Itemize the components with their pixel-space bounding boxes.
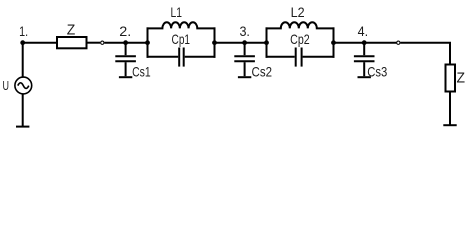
svg-text:U: U xyxy=(3,79,10,93)
voltage source U xyxy=(3,77,32,94)
tank 1 left junction xyxy=(145,40,150,45)
ground bar of Cs1 xyxy=(119,76,132,78)
svg-text:3.: 3. xyxy=(239,23,250,39)
svg-text:Z: Z xyxy=(456,71,465,87)
wire resistor to terminal xyxy=(87,42,101,44)
capacitor Cs3 xyxy=(354,43,388,80)
capacitor Cs2 xyxy=(234,43,272,80)
svg-text:1.: 1. xyxy=(19,23,28,39)
node 4 xyxy=(358,23,369,45)
tank 2 left vertical wire xyxy=(266,27,268,57)
svg-text:L2: L2 xyxy=(291,4,305,20)
inductor L2 xyxy=(266,4,335,28)
capacitor Cp2 xyxy=(266,31,335,67)
svg-text:Cs1: Cs1 xyxy=(132,64,151,80)
svg-text:Cp1: Cp1 xyxy=(172,31,191,47)
svg-text:4.: 4. xyxy=(358,23,369,39)
resistor Z1 xyxy=(57,23,87,49)
node 3 xyxy=(239,23,250,45)
svg-text:Cp2: Cp2 xyxy=(290,31,310,47)
tank 1 left vertical wire xyxy=(147,27,149,57)
svg-text:2.: 2. xyxy=(119,23,131,39)
terminal T1 (open circle) xyxy=(101,41,104,44)
node 2 xyxy=(119,23,131,45)
svg-text:Z: Z xyxy=(67,23,76,39)
tank 1 right vertical wire xyxy=(214,27,216,57)
tank 2 left junction xyxy=(264,40,269,45)
wire tank2 to node 4 and terminal T2 xyxy=(334,42,397,44)
capacitor Cs1 xyxy=(115,43,151,80)
wire source to ground xyxy=(22,94,24,126)
ground bar of Cs3 xyxy=(358,76,371,78)
svg-text:L1: L1 xyxy=(171,4,183,20)
wire node1 to resistor Z1 xyxy=(23,42,57,44)
wire terminal T2 to load resistor xyxy=(400,43,450,64)
wire node1 down to source xyxy=(22,43,24,78)
ground bar of Cs2 xyxy=(238,76,251,78)
wire terminal to node 2 and on to tank 1 xyxy=(104,42,147,44)
node 1 xyxy=(19,23,28,45)
inductor L1 xyxy=(147,4,216,28)
svg-text:Cs2: Cs2 xyxy=(252,64,273,80)
ground bar left xyxy=(16,126,29,128)
tank 2 right junction xyxy=(331,40,336,45)
tank 1 right junction xyxy=(212,40,217,45)
terminal T2 (open circle) xyxy=(397,41,400,44)
wire load resistor to ground xyxy=(449,93,451,125)
capacitor Cp1 xyxy=(147,31,216,66)
resistor Z2 (load) xyxy=(446,65,466,92)
ground bar right xyxy=(443,124,456,126)
wire tank1 to node 3 and tank 2 xyxy=(215,42,267,44)
tank 2 right vertical wire xyxy=(333,27,335,57)
